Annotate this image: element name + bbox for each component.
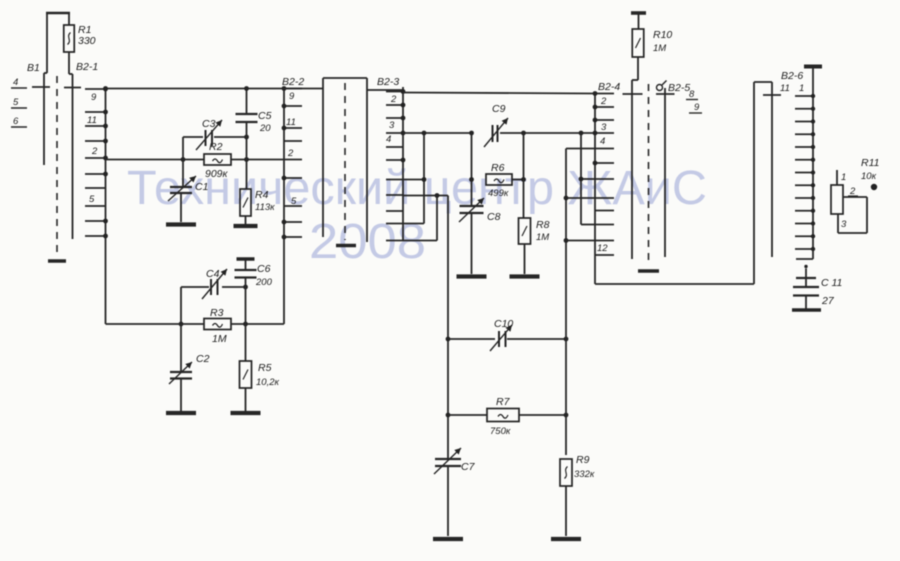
- svg-text:С4: С4: [206, 268, 220, 280]
- switch B2-3 contact row y147: [386, 146, 403, 148]
- bus V437: [403, 196, 437, 241]
- capacitor C1 variable: [168, 176, 196, 201]
- svg-text:С3: С3: [202, 118, 216, 130]
- wire C8 to ground: [471, 213, 473, 274]
- node junction V437 top: [435, 193, 440, 198]
- switch B1 outline top bar: [46, 12, 70, 14]
- ground for C2: [166, 411, 196, 415]
- resistor R11: [831, 185, 843, 214]
- svg-text:9: 9: [694, 102, 700, 113]
- node junction C10 right: [564, 337, 569, 342]
- wire R6 right to R8 line: [512, 179, 524, 181]
- switch B2-4 contact row y255: [595, 254, 614, 256]
- label C8: [487, 211, 501, 223]
- svg-text:27: 27: [821, 295, 835, 307]
- switch B2-4 pole: [594, 94, 596, 285]
- resistor R5: [240, 361, 252, 388]
- switch B2-1 contact row y112: [85, 110, 108, 115]
- svg-text:11: 11: [286, 117, 296, 128]
- capacitor C5: [236, 114, 258, 122]
- resistor R10 top bar: [631, 11, 646, 15]
- svg-text:909к: 909к: [205, 168, 229, 180]
- node junction C10 left: [446, 337, 451, 342]
- svg-text:B1: B1: [27, 62, 40, 74]
- svg-text:5: 5: [291, 196, 297, 207]
- ground for C7: [433, 537, 463, 541]
- wire C9 row middle-right: [500, 132, 595, 134]
- switch B2-3 contact row y160: [386, 158, 405, 163]
- label R9 332к: [574, 454, 595, 480]
- wire R7 row left: [448, 414, 487, 416]
- svg-text:3: 3: [389, 120, 395, 131]
- wire top row from B2-1 to B2-2: [103, 86, 302, 91]
- switch B2-2 pole: [283, 87, 285, 324]
- wire row 179 to V424: [403, 177, 426, 182]
- label B2-3 pin 2: [390, 94, 397, 105]
- svg-text:R10: R10: [653, 29, 672, 41]
- node junction R6 right: [521, 177, 526, 182]
- capacitor C11: [793, 269, 819, 310]
- label B2-4: [598, 81, 620, 93]
- node junction R6 left: [469, 177, 474, 182]
- switch B2-5 top hook: [657, 81, 667, 91]
- label R2: [209, 141, 223, 153]
- svg-text:11: 11: [780, 83, 790, 94]
- svg-text:2: 2: [390, 94, 397, 105]
- svg-text:1М: 1М: [212, 333, 227, 345]
- wire tick across B1 right side: [64, 87, 81, 89]
- wire B2-2 to wafer box: [302, 88, 323, 90]
- wire top row down to C5: [244, 86, 249, 114]
- node junction C6/C4: [243, 285, 248, 290]
- wire R10 down to B2-4: [632, 57, 638, 259]
- wire R8 to ground: [524, 244, 526, 274]
- switch B2-6 contact row y210: [795, 209, 815, 213]
- svg-text:4: 4: [13, 77, 18, 88]
- switch B2-6 pole top bar: [804, 65, 822, 69]
- wire C3 row left: [183, 136, 203, 138]
- switch B2-5 line: [664, 88, 666, 257]
- resistor R7: [487, 409, 519, 422]
- wafer shaft dashed line: [344, 83, 346, 240]
- switch B2-1 contact row y158: [85, 156, 108, 161]
- switch B2-2 contact row y206: [284, 205, 302, 207]
- svg-text:1: 1: [841, 172, 846, 183]
- capacitor C3 trimmer: [196, 120, 222, 150]
- svg-text:5: 5: [13, 97, 19, 108]
- wire B2-1 pole corner to R3: [106, 323, 205, 325]
- label B2-1 pin 11: [87, 115, 97, 126]
- bus V448 left column: [447, 196, 449, 460]
- svg-text:В2-1: В2-1: [76, 61, 98, 73]
- switch B2-2 contact row y237: [282, 235, 302, 240]
- svg-text:С5: С5: [258, 110, 272, 122]
- label B2-5 pin 9: [689, 102, 702, 113]
- node junction V424 top: [422, 131, 427, 136]
- label B1: [27, 62, 40, 74]
- switch B2-2 contact row y178: [282, 176, 302, 181]
- watermark line 2: [309, 215, 426, 269]
- wire row2 down to C1: [181, 160, 183, 223]
- svg-text:750к: 750к: [490, 426, 511, 437]
- switch B2-3 contact row y133: [386, 131, 405, 136]
- label B2-2 pin 11: [286, 117, 296, 128]
- svg-text:20: 20: [259, 123, 271, 134]
- tick across B2-5 line: [656, 93, 675, 95]
- svg-text:11: 11: [87, 115, 97, 126]
- ground for C1: [166, 222, 196, 226]
- label B2-1 pin 5: [89, 194, 95, 205]
- wire R4 to ground: [245, 216, 247, 224]
- switch B2-6 contact row y185: [795, 183, 815, 187]
- svg-text:4: 4: [386, 134, 391, 145]
- wire C8 vertical drop: [471, 133, 473, 205]
- capacitor C11 bottom bar: [792, 308, 821, 312]
- wire C10 row right: [507, 338, 566, 340]
- label B2-3 pin 4: [386, 134, 391, 145]
- switch B2-6 contact row y134: [795, 132, 815, 136]
- node junction C8 drop: [469, 131, 474, 136]
- label B2-1: [76, 61, 98, 73]
- label R11 10к: [861, 157, 879, 182]
- wire row 195 to V448: [403, 195, 448, 197]
- label R11 pin 1: [841, 172, 846, 183]
- switch B2-6 contact row y121: [795, 119, 815, 123]
- label B2-6 pin 11: [780, 83, 790, 94]
- wire top row B2-3 to B2-4: [403, 93, 595, 94]
- label B2-4 pin 12: [597, 243, 608, 254]
- resistor R9: [560, 459, 572, 486]
- wire C5 to row2: [246, 122, 248, 160]
- svg-text:2: 2: [600, 96, 607, 107]
- label R4 113к: [255, 189, 275, 213]
- node junction V566 row240: [564, 238, 569, 243]
- node C11 top dot: [804, 265, 807, 268]
- switch B2-2 contact row y141: [284, 140, 302, 142]
- wire B2-4 pole bottom to B2-6 bracket: [595, 283, 754, 285]
- label R1 330: [78, 24, 96, 47]
- wire R8 vertical drop: [523, 133, 525, 218]
- tick across B2-6 wiper line: [763, 94, 781, 96]
- svg-text:4: 4: [600, 136, 605, 147]
- wire wafer box to B2-3: [367, 89, 403, 91]
- switch B2-4 contact row y179: [595, 178, 614, 180]
- node junction V566 row198: [564, 196, 569, 201]
- wire C7 to ground: [447, 466, 449, 536]
- label R6: [491, 162, 505, 174]
- svg-text:5: 5: [89, 194, 95, 205]
- bus V424: [403, 133, 424, 224]
- label B2-3: [377, 76, 399, 88]
- label B2-3 pin 3: [389, 120, 395, 131]
- B1 position label 5: [11, 97, 27, 108]
- capacitor C6: [235, 259, 257, 287]
- wire C2 to ground: [180, 379, 182, 412]
- label C1: [195, 181, 208, 193]
- svg-text:499к: 499к: [488, 188, 509, 199]
- ground for R8: [510, 274, 540, 278]
- svg-text:2: 2: [287, 148, 294, 159]
- bus V566 right column: [565, 149, 567, 456]
- capacitor C4 trimmer: [202, 269, 227, 299]
- wire C9 row from B2-3: [403, 132, 472, 134]
- label B2-4 pin 3: [601, 122, 607, 133]
- switch B2-1 contact row y221: [85, 219, 108, 224]
- label C6 200: [255, 263, 273, 288]
- label R10 1М: [653, 29, 672, 54]
- label R11 pin 3: [841, 219, 847, 230]
- wire B2-6 bracket: [754, 82, 772, 284]
- wire C2 drop: [180, 324, 182, 371]
- capacitor C6 top bar: [237, 257, 255, 260]
- switch B2-3 pole: [402, 87, 404, 241]
- label R11 pin 2: [848, 186, 858, 197]
- switch B2-6 contact row y172: [795, 170, 815, 174]
- switch B2-3 contact row y211: [386, 210, 403, 212]
- svg-text:В2-5: В2-5: [668, 82, 690, 94]
- capacitor C9 trimmer: [484, 118, 508, 147]
- svg-text:С8: С8: [487, 211, 501, 223]
- label B2-1 pin 2: [91, 146, 98, 157]
- svg-text:9: 9: [289, 91, 295, 102]
- wire V566 row240: [566, 240, 595, 242]
- label R2 value 909к: [205, 168, 229, 180]
- wire C3 row right: [214, 135, 249, 140]
- resistor R6: [486, 174, 512, 185]
- svg-text:С6: С6: [257, 263, 271, 275]
- wire R5 drop: [245, 324, 247, 361]
- label C9: [492, 103, 506, 115]
- svg-text:С7: С7: [461, 461, 476, 473]
- svg-text:R4: R4: [255, 189, 269, 201]
- switch B2-3 contact row y118: [386, 116, 405, 121]
- svg-text:10,2к: 10,2к: [256, 377, 279, 388]
- svg-text:С9: С9: [492, 103, 506, 115]
- switch B2-6 contact row y147: [795, 145, 815, 149]
- switch B2-6 contact row y198: [795, 196, 815, 200]
- svg-text:332к: 332к: [574, 469, 595, 480]
- svg-text:С2: С2: [196, 353, 210, 365]
- wire C6 node down to R3 row: [245, 287, 247, 324]
- wire row2 down to R4: [246, 160, 248, 190]
- label C7: [461, 461, 476, 473]
- capacitor C10 trimmer: [490, 325, 512, 351]
- node junction R8 drop: [521, 131, 526, 136]
- wire input row 4 into B1: [32, 86, 50, 88]
- node junction R7 right: [564, 413, 569, 418]
- capacitor C7 variable: [434, 448, 461, 474]
- switch B2-1 contact row y141: [85, 139, 108, 144]
- svg-text:С1: С1: [195, 181, 208, 193]
- resistor R4: [240, 189, 251, 216]
- switch B2-2 contact row y88.5: [284, 88, 302, 90]
- label R3 value 1М: [212, 333, 227, 345]
- switch B2-3 contact row y240.5: [386, 240, 403, 242]
- wire R9 to ground: [565, 486, 567, 536]
- switch B2-1 contact row y236: [85, 234, 108, 239]
- svg-text:200: 200: [255, 277, 273, 288]
- svg-text:В2-2: В2-2: [282, 76, 304, 88]
- R11 terminal dot: [871, 184, 877, 190]
- label B2-4 pin 4: [600, 136, 605, 147]
- switch B2-3 contact row y179.5: [386, 179, 403, 181]
- resistor R2: [204, 154, 231, 165]
- svg-text:R9: R9: [576, 454, 590, 466]
- label B2-6: [781, 70, 803, 82]
- switch B2-1 contact row y206: [85, 205, 106, 207]
- switch B2-6 pole: [812, 67, 814, 260]
- resistor R8: [519, 218, 531, 244]
- node junction C1 top: [181, 157, 186, 162]
- svg-text:В2-6: В2-6: [781, 70, 803, 82]
- switch B2-1 contact row y89: [85, 87, 108, 92]
- resistor R11 wiper pin2: [843, 196, 867, 198]
- tick across R10 line: [623, 93, 643, 95]
- svg-text:С 11: С 11: [821, 277, 842, 289]
- label R7 value 750к: [490, 426, 511, 437]
- node junction C5/R4: [244, 157, 249, 162]
- label C5 20: [258, 110, 272, 134]
- svg-text:В2-4: В2-4: [598, 81, 620, 93]
- B1 position label 6: [11, 116, 27, 127]
- svg-text:R3: R3: [210, 307, 224, 319]
- label B2-2 pin 2: [287, 148, 294, 159]
- shaft dashed line B2-4/B2-5: [648, 84, 650, 263]
- label B2-1 pin 9: [91, 92, 97, 103]
- resistor R3: [204, 319, 231, 330]
- svg-text:113к: 113к: [255, 202, 275, 213]
- wire R5 to ground: [245, 388, 247, 411]
- ground for C8: [457, 274, 487, 278]
- switch B2-4 contact row y224.5: [595, 224, 614, 226]
- label C4: [206, 268, 220, 280]
- label R3: [210, 307, 224, 319]
- label B2-5: [668, 82, 690, 94]
- switch B2-4 contact row y210.5: [595, 210, 614, 212]
- switch B1 left side: [44, 13, 47, 165]
- label B2-2 pin 5: [291, 196, 297, 207]
- switch B2-1 pole: [105, 89, 107, 324]
- svg-text:1: 1: [799, 83, 804, 94]
- capacitor C2 variable: [169, 362, 192, 384]
- switch B2-1 contact row y174: [85, 172, 108, 177]
- switch B2-4 contact row y133: [593, 131, 614, 136]
- switch B2-4 contact row y93.5: [593, 91, 614, 96]
- switch B2-4 contact row y240.5: [595, 240, 614, 242]
- resistor R10: [632, 13, 644, 57]
- label B2-2: [282, 76, 304, 88]
- switch B2-6 contact row y108: [795, 107, 815, 111]
- svg-text:R6: R6: [491, 162, 505, 174]
- wire C3 left drop to row2: [182, 137, 184, 160]
- wire row 2 from B2-1 to R2: [106, 159, 205, 161]
- switch B2-1 contact row y188: [85, 187, 106, 189]
- svg-text:6: 6: [13, 116, 19, 127]
- shaft end bar: [638, 269, 659, 272]
- label B2-2 pin 9: [289, 91, 295, 102]
- resistor R1: [64, 13, 75, 52]
- bus V581: [579, 133, 595, 225]
- switch B2-4 contact row y163: [593, 161, 614, 166]
- switch B2-3 contact row y223.5: [386, 223, 403, 225]
- svg-text:В2-3: В2-3: [377, 76, 399, 88]
- svg-text:3: 3: [601, 122, 607, 133]
- wire C4 row right: [222, 286, 246, 288]
- svg-text:R7: R7: [496, 396, 511, 408]
- label C11 27: [821, 277, 842, 307]
- switch B2-2 contact row y106: [282, 104, 302, 109]
- switch B2-6 bottom corner: [796, 258, 813, 260]
- svg-text:1М: 1М: [653, 43, 666, 54]
- switch B2-2 contact row y159.5: [284, 159, 302, 161]
- svg-text:10к: 10к: [861, 171, 877, 182]
- label R8 1М: [536, 219, 550, 243]
- svg-text:2: 2: [849, 186, 856, 197]
- wire R3 to B2-2 corner: [231, 323, 284, 325]
- switch B2-6 contact row y223: [795, 221, 815, 225]
- label R6 value 499к: [488, 188, 509, 199]
- B1 shaft end bar: [48, 259, 66, 263]
- svg-text:330: 330: [78, 35, 96, 47]
- watermark line 1: [127, 162, 707, 215]
- switch B2-4 contact row y107: [593, 105, 614, 110]
- switch B2-2 contact row y128: [282, 126, 302, 131]
- B1 position label 4: [11, 77, 27, 88]
- svg-text:R11: R11: [861, 157, 879, 169]
- switch B2-2 contact row y222: [282, 220, 302, 225]
- svg-text:R5: R5: [258, 362, 272, 374]
- ground for R4: [234, 224, 258, 228]
- svg-text:8: 8: [689, 89, 695, 100]
- node junction R7 left: [446, 413, 451, 418]
- switch B2-4 contact row y120: [593, 118, 614, 123]
- wire R11 pin2 to pin3 loop: [838, 197, 867, 233]
- B1 shaft dashed line: [56, 76, 58, 255]
- svg-text:2: 2: [91, 146, 98, 157]
- capacitor C8 trimmer: [459, 198, 484, 222]
- label B2-4 pin 2: [600, 96, 607, 107]
- switch B2-4 contact row y198: [595, 197, 614, 199]
- label B2-5 pin 8: [686, 89, 698, 100]
- svg-text:3: 3: [841, 219, 847, 230]
- switch B2-6 contact row y249: [795, 247, 815, 251]
- svg-text:9: 9: [91, 92, 97, 103]
- switch B2-3 contact row y195: [386, 194, 403, 196]
- wafer box top bar: [323, 77, 367, 79]
- wafer shaft end bar: [336, 244, 356, 247]
- wire V566 row198: [566, 197, 595, 199]
- switch B2-6 contact row y96: [795, 94, 815, 98]
- switch B2-3 contact row y91.5: [386, 89, 405, 94]
- label R5 10,2к: [256, 362, 279, 388]
- node junction R5 top: [243, 322, 248, 327]
- ground for R9: [551, 537, 581, 541]
- node junction V581 top: [579, 131, 584, 136]
- svg-text:R8: R8: [536, 219, 550, 231]
- svg-text:1М: 1М: [536, 232, 549, 243]
- wire R7 row right: [519, 414, 566, 416]
- switch B2-4 contact row y148.5: [595, 148, 614, 150]
- wafer box right line: [366, 78, 368, 242]
- node junction C2 top: [179, 322, 184, 327]
- svg-text:12: 12: [597, 243, 608, 254]
- label C2: [196, 353, 210, 365]
- switch B2-6 contact row y159: [795, 158, 815, 162]
- wire R11 pin3: [837, 214, 839, 233]
- label R7: [496, 396, 511, 408]
- resistor R11 pin1 wire: [836, 170, 838, 185]
- switch B2-1 contact row y126: [85, 124, 108, 129]
